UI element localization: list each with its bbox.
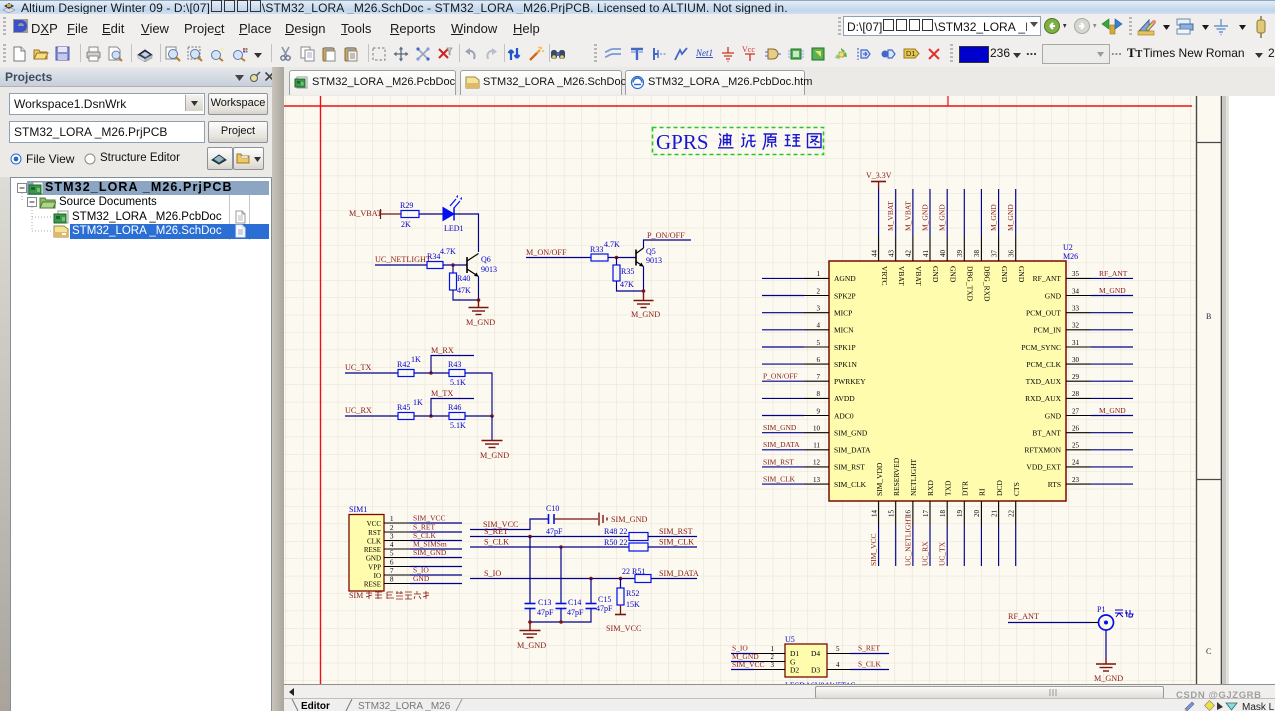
P1 CJK label tian-xian xyxy=(1115,610,1133,617)
svg-text:GND: GND xyxy=(366,555,381,563)
svg-text:10: 10 xyxy=(813,425,821,433)
svg-text:B: B xyxy=(1206,312,1211,321)
svg-text:SIM_VCC: SIM_VCC xyxy=(732,660,765,669)
svg-text:M_GND: M_GND xyxy=(466,318,495,327)
svg-text:P1: P1 xyxy=(1097,605,1105,614)
wire M_RX branch xyxy=(431,356,474,374)
svg-text:47K: 47K xyxy=(620,280,634,289)
svg-text:S_CLK: S_CLK xyxy=(858,660,882,669)
svg-text:M_VBAT: M_VBAT xyxy=(886,201,895,231)
svg-text:AGND: AGND xyxy=(834,274,856,283)
svg-text:5.1K: 5.1K xyxy=(450,421,466,430)
address combo xyxy=(843,16,1041,36)
svg-text:C: C xyxy=(1206,647,1211,656)
svg-text:9013: 9013 xyxy=(481,265,497,274)
capacitor C10 xyxy=(546,504,563,536)
svg-text:39: 39 xyxy=(956,250,964,258)
capacitor C15 xyxy=(586,595,614,613)
U2 pin 6 SPK1N xyxy=(762,356,858,369)
svg-text:42: 42 xyxy=(905,250,913,258)
junction M_RX tap xyxy=(429,371,433,375)
svg-text:SPK2P: SPK2P xyxy=(834,291,856,300)
svg-text:AVDD: AVDD xyxy=(834,394,855,403)
svg-text:ADC0: ADC0 xyxy=(834,411,854,420)
wire UC_TX to R42 xyxy=(345,372,398,374)
IC U2 body xyxy=(829,261,1066,501)
SIM1 pin 1 xyxy=(384,522,410,524)
svg-text:M_ON/OFF: M_ON/OFF xyxy=(526,248,567,257)
title CJK 通讯原理图 xyxy=(718,133,821,150)
svg-text:D2: D2 xyxy=(790,666,799,675)
svg-text:5: 5 xyxy=(817,339,821,347)
svg-text:18: 18 xyxy=(939,510,947,518)
svg-text:Net1: Net1 xyxy=(695,48,713,58)
svg-text:R52: R52 xyxy=(626,589,639,598)
svg-text:D4: D4 xyxy=(811,649,820,658)
svg-text:24: 24 xyxy=(1072,459,1080,467)
svg-text:4.7K: 4.7K xyxy=(604,240,620,249)
U2 pin 14 SIM_VDD xyxy=(869,462,884,566)
LED LED1 xyxy=(443,195,464,233)
svg-text:2: 2 xyxy=(771,653,775,661)
svg-text:GND: GND xyxy=(1000,266,1009,283)
svg-text:SIM_GND: SIM_GND xyxy=(611,515,647,524)
svg-text:VDD_EXT: VDD_EXT xyxy=(1026,463,1061,472)
svg-text:1: 1 xyxy=(817,270,821,278)
svg-text:36: 36 xyxy=(1008,250,1016,258)
svg-text:8: 8 xyxy=(390,576,394,584)
svg-text:P_ON/OFF: P_ON/OFF xyxy=(763,372,798,381)
resistor R29 xyxy=(401,211,419,218)
svg-text:26: 26 xyxy=(1072,425,1080,433)
svg-text:GND: GND xyxy=(413,574,430,583)
wire M_ON/OFF to R33 xyxy=(526,257,591,259)
svg-text:1K: 1K xyxy=(413,398,423,407)
wire R34 to Q6 base xyxy=(443,264,467,266)
svg-text:11: 11 xyxy=(813,442,820,450)
svg-text:6: 6 xyxy=(817,356,821,364)
svg-text:P_ON/OFF: P_ON/OFF xyxy=(647,231,685,240)
home/up icon xyxy=(1101,16,1123,36)
svg-text:1: 1 xyxy=(390,515,394,523)
U2 pin 2 SPK2P xyxy=(762,287,856,300)
transistor Q5 9013 xyxy=(636,247,662,267)
svg-text:UC_RX: UC_RX xyxy=(920,541,929,566)
svg-text:SIM_GND: SIM_GND xyxy=(763,423,797,432)
svg-text:IO: IO xyxy=(374,572,381,580)
layers icon xyxy=(1176,18,1210,36)
svg-text:M_GND: M_GND xyxy=(480,451,509,460)
svg-text:4: 4 xyxy=(817,322,821,330)
U2 pin 33 PCM_OUT xyxy=(1026,305,1133,318)
svg-text:BT_ANT: BT_ANT xyxy=(1032,429,1061,438)
svg-text:M_GND: M_GND xyxy=(1094,674,1123,683)
pin capsule icon xyxy=(1256,15,1268,39)
fwd btn xyxy=(1074,17,1100,35)
svg-text:1: 1 xyxy=(771,645,775,653)
U2 pin 35 RF_ANT xyxy=(1033,269,1133,283)
svg-text:U2: U2 xyxy=(1063,243,1073,252)
svg-text:C13: C13 xyxy=(538,598,551,607)
junction Q5 emitter ground xyxy=(642,289,646,293)
svg-text:PCM_SYNC: PCM_SYNC xyxy=(1021,343,1061,352)
zone divider 1 xyxy=(1197,142,1222,144)
workspace combo xyxy=(9,93,205,115)
svg-text:3: 3 xyxy=(390,533,394,541)
sheet edge shadow xyxy=(1222,96,1275,684)
U2 pin 41 GND xyxy=(920,189,940,283)
port tick M_VBAT xyxy=(380,209,382,219)
svg-text:20: 20 xyxy=(973,510,981,518)
sheet background xyxy=(284,96,1222,684)
U2 pin 20 RI xyxy=(973,488,986,566)
svg-text:R43: R43 xyxy=(448,360,461,369)
schematic title GPRS selection box xyxy=(653,128,824,155)
back btn xyxy=(1044,17,1070,35)
SIM1 CJK caption SIM卡座 掀盖式大卡 xyxy=(349,591,429,600)
svg-text:RST: RST xyxy=(368,529,382,537)
U2 pin 15 RESERVED xyxy=(888,457,901,566)
svg-text:15K: 15K xyxy=(626,600,640,609)
svg-text:5: 5 xyxy=(836,645,840,653)
U2 pin 40 GND xyxy=(938,189,958,283)
svg-text:28: 28 xyxy=(1072,390,1080,398)
U2 pin 1 AGND xyxy=(762,270,856,283)
svg-text:GND: GND xyxy=(1045,411,1062,420)
svg-text:R45: R45 xyxy=(397,403,410,412)
U2 pin 16 NETLIGHT xyxy=(903,459,918,566)
svg-text:VCC: VCC xyxy=(367,520,382,528)
wire UC_RX to R45 xyxy=(345,415,398,417)
svg-text:4: 4 xyxy=(390,541,394,549)
svg-text:DBG_RXD: DBG_RXD xyxy=(983,266,992,302)
svg-text:GND: GND xyxy=(1045,291,1062,300)
junction C14 top xyxy=(559,545,563,549)
svg-text:SIM_GND: SIM_GND xyxy=(834,429,868,438)
svg-text:RTS: RTS xyxy=(1048,480,1061,489)
svg-text:5: 5 xyxy=(390,550,394,558)
svg-text:TXD: TXD xyxy=(943,480,952,496)
wire RF_ANT to P1 xyxy=(1008,622,1090,624)
svg-text:21: 21 xyxy=(990,510,998,518)
ground M_GND (LED circuit) xyxy=(469,300,489,315)
svg-text:C15: C15 xyxy=(598,595,611,604)
U2 pin 30 PCM_CLK xyxy=(1026,356,1133,369)
svg-text:43: 43 xyxy=(888,250,896,258)
wire R50 to SIM_CLK xyxy=(648,546,697,548)
svg-text:7: 7 xyxy=(817,373,821,381)
U5 pin 2 M_GND xyxy=(731,652,785,662)
wire R33 to Q5 base xyxy=(608,257,636,259)
svg-text:VBAT: VBAT xyxy=(897,266,906,286)
U2 pin 43 VBAT xyxy=(886,189,906,286)
svg-text:MICN: MICN xyxy=(834,326,854,335)
U2 pin 28 RXD_AUX xyxy=(1025,390,1133,403)
sheet inner border top xyxy=(284,105,1192,107)
ground M_GND (antenna) xyxy=(1096,658,1116,671)
svg-text:S_IO: S_IO xyxy=(484,569,501,578)
resistor R45 xyxy=(398,413,414,420)
junction R35 top xyxy=(615,256,619,260)
U2 pin 44 VRTC xyxy=(870,189,888,286)
top margin zone tick xyxy=(947,96,949,106)
svg-text:DBG_TXD: DBG_TXD xyxy=(966,266,975,302)
connector P1 xyxy=(1097,605,1114,630)
U5 pin 4 S_CLK xyxy=(827,660,889,670)
svg-text:VBAT: VBAT xyxy=(914,266,923,286)
ground M_GND (SIM filter) xyxy=(520,622,541,638)
wire C15 vertical xyxy=(590,579,592,604)
SIM1 pin 8 xyxy=(384,583,410,585)
SIM1 pin 2 xyxy=(384,531,410,533)
U2 pin 5 SPK1P xyxy=(762,339,856,352)
svg-text:DCD: DCD xyxy=(995,480,1004,496)
wire C14 vertical xyxy=(560,547,562,603)
svg-text:RF_ANT: RF_ANT xyxy=(1008,612,1039,621)
svg-text:M_GND: M_GND xyxy=(920,204,929,231)
svg-text:13: 13 xyxy=(813,476,821,484)
svg-text:RFTXMON: RFTXMON xyxy=(1024,446,1061,455)
wire R48 to SIM_RST xyxy=(648,536,697,538)
svg-text:S_RET: S_RET xyxy=(484,527,508,536)
wire Q5 collector to P_ON/OFF xyxy=(644,240,692,248)
wire S_IO row xyxy=(470,578,635,580)
U2 pin 36 GND xyxy=(1006,189,1026,283)
U2 pin 21 DCD xyxy=(990,480,1003,566)
svg-text:VRTC: VRTC xyxy=(880,266,889,286)
U2 pin 11 SIM_DATA xyxy=(762,440,871,454)
resistor R35 vertical xyxy=(616,258,618,266)
svg-text:2: 2 xyxy=(390,524,394,532)
svg-text:5.1K: 5.1K xyxy=(450,378,466,387)
capacitor C13 xyxy=(525,598,555,617)
junction emitter/ground xyxy=(477,298,481,302)
svg-text:SIM_CLK: SIM_CLK xyxy=(659,538,694,547)
svg-text:38: 38 xyxy=(973,250,981,258)
svg-text:47K: 47K xyxy=(457,286,471,295)
svg-text:VPP: VPP xyxy=(368,564,381,572)
wire S_RET row xyxy=(470,536,629,538)
svg-text:44: 44 xyxy=(870,250,878,258)
U2 pin 39 DBG_TXD xyxy=(956,189,974,302)
svg-text:SIM_DATA: SIM_DATA xyxy=(834,446,871,455)
svg-text:6: 6 xyxy=(390,559,394,567)
SIM1 pin 6 xyxy=(384,566,410,568)
svg-text:NETLIGHT: NETLIGHT xyxy=(909,459,918,496)
svg-text:UC_TX: UC_TX xyxy=(938,541,947,566)
svg-text:37: 37 xyxy=(990,250,998,258)
wire R51 to SIM_DATA xyxy=(651,578,697,580)
wire M_TX branch xyxy=(431,399,474,417)
wire capacitor ground rail xyxy=(530,609,591,623)
svg-text:SIM_DATA: SIM_DATA xyxy=(763,440,800,449)
wire R46 to ground node xyxy=(465,415,492,417)
svg-text:47pF: 47pF xyxy=(546,527,563,536)
svg-text:D3: D3 xyxy=(811,666,820,675)
U2 pin 37 GND xyxy=(989,189,1009,283)
svg-text:R33: R33 xyxy=(590,245,603,254)
wire R35 bottom rail xyxy=(617,281,644,291)
U5 pin 3 SIM_VCC xyxy=(731,660,785,670)
U2 pin 3 MICP xyxy=(762,305,852,318)
svg-text:CLK: CLK xyxy=(367,538,381,546)
svg-text:SPK1P: SPK1P xyxy=(834,343,856,352)
power port V_3.3V xyxy=(866,171,892,189)
U2 pin 24 VDD_EXT xyxy=(1026,459,1133,472)
ground M_GND (UART network) xyxy=(482,441,503,448)
svg-text:M_TX: M_TX xyxy=(431,389,453,398)
svg-text:9013: 9013 xyxy=(646,256,662,265)
svg-text:M_GND: M_GND xyxy=(938,204,947,231)
svg-text:GND: GND xyxy=(948,266,957,283)
svg-text:V_3.3V: V_3.3V xyxy=(866,171,892,180)
wire R43 to corner xyxy=(465,373,492,416)
svg-text:SPK1N: SPK1N xyxy=(834,360,858,369)
svg-text:UC_TX: UC_TX xyxy=(345,363,371,372)
svg-text:Q5: Q5 xyxy=(646,247,656,256)
row 3 pcbdoc xyxy=(53,210,69,224)
svg-text:SIM_VDD: SIM_VDD xyxy=(875,462,884,496)
setsquare+pencil xyxy=(1137,17,1171,37)
svg-text:RF_ANT: RF_ANT xyxy=(1099,269,1128,278)
svg-text:R46: R46 xyxy=(448,403,461,412)
svg-text:MICP: MICP xyxy=(834,309,852,318)
svg-text:12: 12 xyxy=(813,459,821,467)
svg-text:SIM: SIM xyxy=(349,591,363,600)
junction R52 top xyxy=(619,577,623,581)
U5 pin 1 S_IO xyxy=(731,644,785,654)
SIM1 pin names xyxy=(364,520,382,589)
svg-text:SIM_GND: SIM_GND xyxy=(413,548,447,557)
wire C14 bottom xyxy=(560,609,562,623)
svg-text:TXD_AUX: TXD_AUX xyxy=(1026,377,1062,386)
svg-text:R40: R40 xyxy=(457,274,470,283)
zone divider 2 xyxy=(1197,479,1222,481)
U2 pin 19 DTR xyxy=(956,481,969,566)
svg-text:4: 4 xyxy=(836,661,840,669)
svg-text:R35: R35 xyxy=(621,267,634,276)
svg-text:C14: C14 xyxy=(568,598,581,607)
svg-text:GPRS: GPRS xyxy=(656,130,709,154)
svg-text:U5: U5 xyxy=(785,635,795,644)
wire SIM_VCC row xyxy=(470,519,548,530)
svg-text:UC_NETLIGHT: UC_NETLIGHT xyxy=(903,514,912,566)
resistor R43 xyxy=(449,370,465,377)
U2 pin 34 GND xyxy=(1045,286,1133,300)
U2 pin 4 MICN xyxy=(762,322,854,335)
U2 pin 38 DBG_RXD xyxy=(973,189,991,302)
svg-text:PCM_CLK: PCM_CLK xyxy=(1026,360,1061,369)
resistor R40 vertical xyxy=(452,265,454,273)
svg-text:SIM_RST: SIM_RST xyxy=(763,457,794,466)
SIM1 pin 5 xyxy=(384,557,410,559)
svg-text:M_GND: M_GND xyxy=(1099,406,1126,415)
svg-text:UC_RX: UC_RX xyxy=(345,406,372,415)
wire LED1 to Q6 collector xyxy=(454,214,479,252)
svg-text:R29: R29 xyxy=(400,201,413,210)
P1 pin stub xyxy=(1090,622,1098,624)
svg-text:M_GND: M_GND xyxy=(1099,286,1126,295)
U2 pin 13 SIM_CLK xyxy=(762,475,867,489)
svg-text:25: 25 xyxy=(1072,442,1080,450)
svg-text:M_VBAT: M_VBAT xyxy=(903,201,912,231)
svg-text:GND: GND xyxy=(931,266,940,283)
svg-text:RXD_AUX: RXD_AUX xyxy=(1025,394,1061,403)
svg-text:SIM_DATA: SIM_DATA xyxy=(659,569,699,578)
svg-text:34: 34 xyxy=(1072,287,1080,295)
svg-text:3: 3 xyxy=(817,305,821,313)
svg-text:S_CLK: S_CLK xyxy=(484,538,509,547)
resistor R34 xyxy=(427,262,443,269)
svg-text:CTS: CTS xyxy=(1012,482,1021,496)
svg-text:RESERVED: RESERVED xyxy=(892,457,901,496)
transistor Q6 9013 xyxy=(467,254,497,277)
wire node to ground xyxy=(491,416,493,440)
svg-text:SIM_RST: SIM_RST xyxy=(659,527,693,536)
U2 pin 32 PCM_IN xyxy=(1033,322,1133,335)
resistor R42 xyxy=(398,370,414,377)
svg-text:R50 22: R50 22 xyxy=(604,538,627,547)
U2 pin 17 RXD xyxy=(920,480,935,566)
svg-text:STM32_LORA _M26: STM32_LORA _M26 xyxy=(358,701,451,711)
svg-text:41: 41 xyxy=(922,250,930,258)
SIM1 pin 7 xyxy=(384,574,410,576)
svg-text:40: 40 xyxy=(939,250,947,258)
svg-text:15: 15 xyxy=(888,510,896,518)
U2 pin 22 CTS xyxy=(1008,482,1021,566)
svg-text:M_GND: M_GND xyxy=(631,310,660,319)
sheet zone strip xyxy=(1196,96,1222,684)
junction rail C14 xyxy=(559,620,563,624)
wire UC_NETLIGHT to R34 xyxy=(375,264,427,266)
svg-text:SIM_CLK: SIM_CLK xyxy=(834,480,867,489)
svg-text:D1: D1 xyxy=(906,49,916,58)
junction M_TX tap xyxy=(429,414,433,418)
svg-text:47pF: 47pF xyxy=(596,604,613,613)
wire C10 to SIM_GND power xyxy=(554,518,598,520)
svg-text:PCM_OUT: PCM_OUT xyxy=(1026,309,1061,318)
U2 pin 27 GND xyxy=(1045,406,1133,420)
tree xyxy=(0,177,10,711)
U2 pin 25 RFTXMON xyxy=(1024,442,1133,455)
svg-text:2K: 2K xyxy=(401,220,411,229)
junction R40 top xyxy=(451,263,455,267)
wire C13 vertical xyxy=(529,537,531,604)
svg-text:M_GND: M_GND xyxy=(989,204,998,231)
svg-text:Editor: Editor xyxy=(301,701,330,711)
svg-text:2: 2 xyxy=(817,287,821,295)
row 1 selected project xyxy=(27,181,269,195)
resistor R52 vertical xyxy=(620,579,622,589)
svg-text:M_GND: M_GND xyxy=(1006,204,1015,231)
svg-text:RI: RI xyxy=(978,488,987,496)
gnd tool icon xyxy=(1213,18,1247,36)
svg-text:SIM_VCC: SIM_VCC xyxy=(869,533,878,566)
svg-text:S_RET: S_RET xyxy=(858,644,881,653)
svg-text:27: 27 xyxy=(1072,407,1080,415)
svg-text:PCM_IN: PCM_IN xyxy=(1033,326,1061,335)
svg-text:SIM_VCC: SIM_VCC xyxy=(606,624,642,633)
row 4 schdoc selected xyxy=(70,224,269,239)
svg-text:35: 35 xyxy=(1072,270,1080,278)
power port SIM_VCC xyxy=(615,614,626,616)
svg-text:RESE: RESE xyxy=(364,581,381,589)
wire R42 to R43 xyxy=(414,372,449,374)
U2 pin 23 RTS xyxy=(1048,476,1133,489)
radios xyxy=(10,153,22,165)
U2 pin 29 TXD_AUX xyxy=(1026,373,1133,386)
svg-text:R42: R42 xyxy=(397,360,410,369)
